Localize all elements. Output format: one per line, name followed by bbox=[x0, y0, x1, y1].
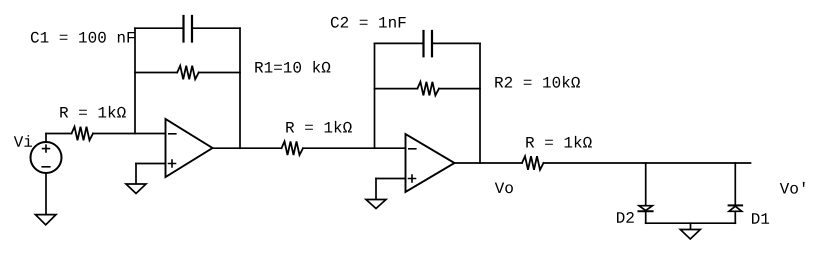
resistor R input zigzag bbox=[72, 127, 94, 141]
wire D2 branch upper bbox=[645, 163, 647, 206]
wire input left segment bbox=[46, 133, 72, 135]
label C1 = 100 nF bbox=[31, 32, 135, 43]
resistor R2 zigzag bbox=[417, 82, 439, 96]
wire U1 ground stem bbox=[135, 164, 137, 184]
wire feedback2 left vertical bbox=[374, 43, 376, 148]
label Vi bbox=[14, 135, 32, 147]
label R = 1kOhm output resistor bbox=[526, 136, 592, 148]
label C2 = 1nF bbox=[331, 17, 406, 28]
wire feedback1 left vertical bbox=[134, 28, 136, 133]
op-amp U2 minus pin mark bbox=[409, 148, 416, 150]
wire feedback1 top left bbox=[135, 27, 184, 29]
wire U2 plus input bbox=[376, 178, 406, 180]
label R = 1kOhm interstage resistor bbox=[286, 121, 352, 133]
wire ground stem bottom bbox=[690, 223, 692, 229]
ground below U1 bbox=[126, 184, 146, 194]
resistor R interstage zigzag bbox=[282, 141, 304, 155]
source Vi plus sign bbox=[43, 145, 50, 152]
wire Vi ground stem bbox=[45, 173, 47, 214]
ground below U2 bbox=[366, 200, 386, 209]
wire input right segment to op-amp bbox=[93, 133, 166, 135]
label R1=10 kOhm bbox=[255, 61, 330, 73]
wire feedback1 top right bbox=[192, 27, 240, 29]
diode D1 cathode bar bbox=[729, 204, 743, 206]
op-amp U2 plus pin mark bbox=[409, 175, 416, 182]
wire R1 row left bbox=[135, 72, 177, 74]
wire D1 branch lower bbox=[734, 211, 736, 223]
ground bottom rail bbox=[680, 230, 700, 240]
wire diode bottom rail bbox=[646, 222, 736, 224]
diode D2 cathode bar bbox=[639, 210, 653, 212]
wire feedback1 right vertical bbox=[239, 28, 241, 148]
label R2 = 10kOhm bbox=[495, 76, 580, 88]
op-amp U2 bbox=[406, 134, 455, 192]
diode D2 bbox=[639, 206, 652, 211]
wire D2 branch lower bbox=[645, 211, 647, 223]
label D1 bbox=[752, 213, 769, 224]
label Vo bbox=[495, 183, 513, 194]
wire U2 output bbox=[455, 162, 523, 164]
wire U2 ground stem bbox=[375, 179, 377, 199]
label Vo' bbox=[780, 182, 805, 194]
wire output to Vo' bbox=[544, 162, 751, 164]
wire feedback2 right vertical bbox=[479, 43, 481, 163]
wire feedback2 top left bbox=[375, 42, 424, 44]
wire feedback2 top right bbox=[432, 42, 480, 44]
resistor R output zigzag bbox=[522, 156, 544, 170]
ground below Vi bbox=[35, 215, 56, 225]
source Vi minus sign bbox=[42, 166, 50, 168]
diode D1 bbox=[729, 206, 742, 211]
op-amp U1 plus pin mark bbox=[169, 160, 176, 167]
wire U1 output bbox=[213, 147, 282, 149]
capacitor C1 bbox=[184, 16, 193, 42]
wire Vi top riser bbox=[45, 134, 47, 143]
wire U1 plus input bbox=[136, 163, 166, 165]
wire interstage to op-amp U2 bbox=[303, 147, 406, 149]
wire R2 row right bbox=[439, 88, 480, 90]
label D2 bbox=[617, 212, 634, 223]
label R = 1kOhm input resistor bbox=[60, 106, 126, 118]
wire D1 branch upper bbox=[734, 163, 736, 205]
resistor R1 zigzag bbox=[177, 66, 199, 80]
wire R1 row right bbox=[199, 72, 240, 74]
capacitor C2 bbox=[424, 31, 433, 56]
source Vi bbox=[31, 142, 62, 173]
wire R2 row left bbox=[375, 88, 418, 90]
op-amp U1 bbox=[166, 119, 213, 177]
op-amp U1 minus pin mark bbox=[169, 133, 176, 135]
